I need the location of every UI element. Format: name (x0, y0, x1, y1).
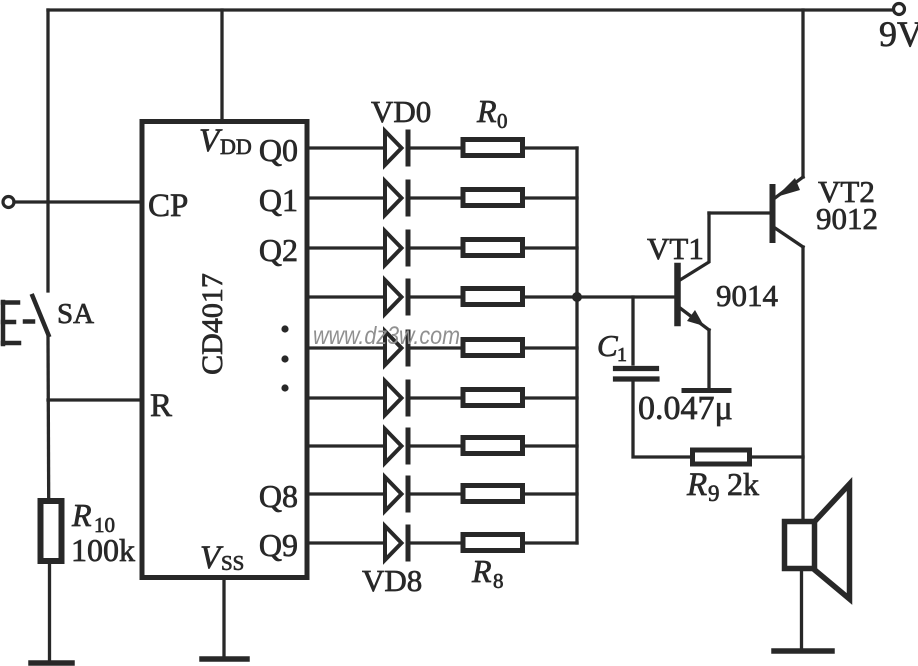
resistor R2 (463, 240, 523, 256)
switch SA: pushbutton actuator bracket (3, 302, 33, 344)
svg-text:0: 0 (497, 109, 508, 133)
terminal: 9V supply circle (894, 4, 905, 15)
transistor VT2 collector (775, 228, 803, 247)
wire: R8 to bus (525, 541, 577, 544)
wire: VD0 cathode to R0 (410, 146, 463, 149)
speaker BL box (785, 522, 815, 569)
svg-text:8: 8 (493, 569, 504, 593)
wire: Q4 row anode wire (308, 346, 384, 349)
ground: VT1 emitter (684, 388, 729, 393)
wire: VSS to ground (222, 577, 225, 657)
wire: top 9V rail (48, 8, 893, 11)
diode VD2 (385, 231, 408, 265)
wire: R9 to collector line (752, 455, 803, 458)
wire: R pin (48, 398, 141, 401)
label: IC ellipsis dots (281, 325, 288, 391)
diode VD6 (385, 429, 408, 463)
wire: R2 to bus (525, 246, 577, 249)
svg-text:SA: SA (57, 298, 94, 330)
wire: VT1 emitter down (707, 330, 710, 389)
svg-text:9012: 9012 (816, 201, 878, 236)
node: bus to VT1 base junction (572, 292, 582, 302)
resistor R6 (463, 438, 523, 454)
wire: bus to VT1 base (577, 295, 676, 298)
wire: VD5 cathode to R5 (410, 396, 463, 399)
svg-text:1: 1 (617, 344, 627, 366)
wire: C1 tap from base line (631, 297, 634, 364)
capacitor C1 plates (616, 366, 657, 371)
wire: Q6 row anode wire (308, 444, 384, 447)
terminal: CP input circle (3, 197, 14, 208)
svg-text:VT1: VT1 (647, 231, 704, 266)
svg-text:SS: SS (221, 551, 244, 575)
wire: Q2 row anode wire (308, 246, 384, 249)
svg-text:DD: DD (220, 134, 252, 159)
diode VD1 (385, 181, 408, 215)
svg-text:100k: 100k (71, 532, 135, 568)
wire: R0 to bus (525, 146, 577, 149)
svg-text:R: R (150, 388, 172, 424)
wire: Q0 row anode wire (308, 146, 384, 149)
svg-text:9V: 9V (879, 14, 918, 54)
svg-text:VD0: VD0 (371, 94, 431, 129)
diode VD0 (385, 131, 408, 165)
wire: speaker to ground (800, 571, 803, 649)
wire: Q8 row anode wire (308, 541, 384, 544)
svg-text:Q8: Q8 (259, 478, 298, 514)
switch SA: lever (33, 296, 49, 335)
svg-text:CP: CP (148, 188, 188, 224)
ground: bottom left (31, 660, 72, 666)
transistor VT1 collector (680, 213, 709, 280)
wire: VD3 cathode to R3 (410, 295, 463, 298)
diode VD8 (385, 526, 408, 560)
ground: below speaker (774, 648, 832, 654)
resistor R9 (693, 450, 750, 464)
svg-text:2k: 2k (727, 466, 759, 502)
svg-text:9: 9 (708, 481, 720, 506)
svg-text:Q0: Q0 (259, 132, 298, 168)
wire: Q1 row anode wire (308, 196, 384, 199)
diode VD4 (385, 331, 408, 365)
svg-text:R: R (476, 93, 497, 129)
wire: R1 to bus (525, 196, 577, 199)
ground: below VSS (202, 656, 247, 662)
wire: R3 to bus (525, 295, 577, 298)
resistor R1 (463, 190, 523, 206)
wire: R5 to bus (525, 396, 577, 399)
wire: Q3 row anode wire (308, 295, 384, 298)
wire: CP input to IC (14, 200, 141, 203)
resistor R7 (463, 486, 523, 502)
svg-text:www.dz3w.com: www.dz3w.com (313, 322, 460, 350)
wire: left vertical from rail to switch (46, 10, 49, 291)
resistor R10 (41, 501, 62, 561)
transistor VT2 base bar (770, 187, 776, 240)
resistor R4 (463, 340, 523, 356)
wire: rail to VT2 emitter (801, 10, 804, 177)
svg-text:R: R (71, 497, 92, 533)
wire: R7 to bus (525, 492, 577, 495)
wire: Q5 row anode wire (308, 396, 384, 399)
wire: VD7 cathode to R7 (410, 492, 463, 495)
resistor R8 (463, 535, 523, 551)
wire: Q7 row anode wire (308, 492, 384, 495)
svg-text:R: R (471, 553, 492, 589)
speaker BL horn (816, 484, 850, 599)
svg-text:Q1: Q1 (259, 182, 298, 218)
wire: R6 to bus (525, 444, 577, 447)
resistor R3 (463, 289, 523, 305)
transistor VT1 base bar (674, 266, 681, 323)
wire: VD6 cathode to R6 (410, 444, 463, 447)
svg-text:0.047μ: 0.047μ (638, 390, 733, 427)
svg-text:9014: 9014 (716, 278, 779, 313)
svg-text:Q9: Q9 (259, 527, 298, 563)
resistor R0 (463, 140, 523, 156)
diode VD5 (385, 381, 408, 415)
svg-text:VD8: VD8 (362, 563, 422, 598)
diode VD3 (385, 280, 408, 314)
wire: switch to R junction and R10 (46, 335, 50, 501)
svg-text:R: R (686, 467, 707, 503)
wire: VD4 cathode to R4 (410, 346, 463, 349)
wire: R4 to bus (525, 346, 577, 349)
wire: C1 to R9 (633, 381, 690, 457)
transistor VT2 emitter with arrow (775, 177, 803, 198)
wire: VD1 cathode to R1 (410, 196, 463, 199)
svg-text:Q2: Q2 (259, 232, 298, 268)
transistor VT1 emitter with arrow (680, 308, 709, 330)
op-amp U1: IC CD4017 body (142, 122, 307, 578)
resistor R5 (463, 390, 523, 406)
wire: VD2 cathode to R2 (410, 246, 463, 249)
wire: output bus vertical (575, 148, 578, 543)
wire: VD8 cathode to R8 (410, 541, 463, 544)
wire: VT2 collector to speaker (801, 247, 804, 519)
wire: VT1 collector to VT2 base (709, 211, 770, 214)
wire: R10 to ground (48, 561, 51, 661)
wire: VDD drop from rail (220, 10, 223, 121)
svg-text:CD4017: CD4017 (196, 273, 229, 375)
svg-text:C: C (597, 328, 618, 363)
diode VD7 (385, 477, 408, 511)
